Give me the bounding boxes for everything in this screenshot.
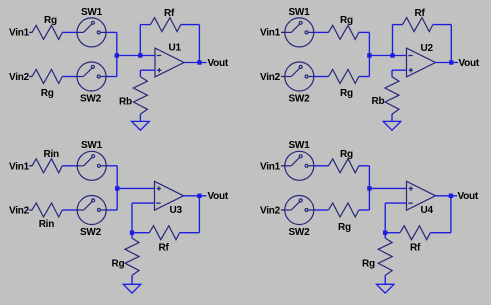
wire Rf down to output (U2) [450,25,452,63]
svg-text:Rf: Rf [415,8,426,19]
wire SW1-Rg (U4) [314,165,329,167]
wire output (U1) [184,62,207,64]
svg-text:Vin2: Vin2 [9,205,30,216]
ground (U4) [376,284,394,293]
junction Rf tap (U1) [138,53,142,57]
junction summing node (U4) [367,186,371,190]
svg-text:Vout: Vout [208,191,229,202]
resistor Rin upper (U3) [32,159,62,173]
wire Rf top right (U1) [181,24,200,26]
switch SW1 (U4) [285,151,314,180]
op-amp U4 [407,181,436,210]
svg-text:SW2: SW2 [289,93,311,104]
svg-text:U1: U1 [169,43,182,54]
resistor Rb (U1) [133,77,147,114]
svg-text:Vin1: Vin1 [9,162,30,173]
wire Vin1 stub (U3) [29,165,32,167]
wire Rg to ground (U4) [384,275,386,284]
svg-text:Rf: Rf [410,242,421,253]
wire node to Rf (U4) [385,232,400,234]
wire SW2-corner (U1) [106,76,117,78]
wire SW2-Rg (U2) [314,76,329,78]
svg-text:U4: U4 [421,205,434,216]
svg-text:Rb: Rb [119,96,132,107]
svg-text:SW1: SW1 [81,7,103,18]
svg-text:Rf: Rf [159,242,170,253]
wire Vin2 stub (U3) [29,209,32,211]
wire corner down to node (U3) [116,166,118,189]
wire Rg-corner (U2) [359,31,370,33]
wire Rb to ground (U1) [139,114,141,121]
junction output node (U3) [197,194,201,198]
wire corner up to node (U3) [116,188,118,210]
switch SW2 (U3) [77,196,106,225]
svg-text:Vin2: Vin2 [260,72,281,83]
wire node to noninverting input (U3) [117,187,154,189]
wire SW1-corner (U1) [106,31,117,33]
svg-text:Vout: Vout [458,191,479,202]
wire Rf top left (U1) [140,24,150,26]
resistor Rg upper (U4) [329,159,359,173]
wire Rf top right (U2) [433,24,452,26]
resistor Rg upper (U1) [32,25,62,39]
svg-text:Rg: Rg [340,149,353,160]
svg-text:Rg: Rg [340,88,353,99]
junction output node (U2) [449,60,453,64]
svg-text:Vout: Vout [459,58,480,69]
svg-text:U2: U2 [421,43,434,54]
wire SW1-corner (U3) [106,165,117,167]
switch SW2 (U1) [77,62,106,91]
svg-text:Vin1: Vin1 [9,28,30,39]
svg-text:Rb: Rb [372,96,385,107]
wire output (U4) [436,195,458,197]
junction summing node (U3) [115,186,119,190]
junction summing node (U1) [115,53,119,57]
wire corner down to node (U1) [116,32,118,55]
svg-text:SW1: SW1 [289,140,311,151]
wire SW2-corner (U3) [106,209,117,211]
wire corner up to node (U2) [368,56,370,77]
wire Rg-SW2 (U1) [62,76,77,78]
svg-text:Vout: Vout [208,58,229,69]
wire inverting down (U4) [384,203,386,233]
wire noninverting left (U1) [140,69,155,71]
wire Rf tap up (U2) [392,25,394,56]
wire Rg-corner (U4) [359,165,370,167]
wire Rin-SW1 (U3) [62,165,77,167]
wire inverting left (U3) [132,202,155,204]
resistor Rf (U4) [400,226,430,240]
svg-text:Vin2: Vin2 [260,205,281,216]
junction summing node (U2) [367,53,371,57]
wire Rf tap up (U1) [139,25,141,56]
wire Vin2 stub (U4) [281,209,285,211]
ground (U1) [132,121,150,130]
wire Rf right (U3) [180,232,200,234]
wire Rf top left (U2) [393,24,403,26]
wire Rg-corner lower (U2) [359,76,370,78]
junction output node (U4) [449,194,453,198]
switch SW1 (U3) [77,151,106,180]
svg-text:SW1: SW1 [81,140,103,151]
wire Vin1 stub (U4) [281,165,285,167]
wire output (U2) [436,62,459,64]
wire output (U3) [184,195,207,197]
wire node to inverting input (U2) [369,55,406,57]
resistor Rg (U3) [125,238,139,275]
wire Rf down to output (U1) [198,25,200,63]
svg-text:Rin: Rin [39,219,55,230]
wire Rf up to output (U4) [450,196,452,233]
resistor Rg lower (U4) [329,203,359,217]
wire corner up to node (U1) [116,56,118,77]
junction Rf tap (U2) [390,53,394,57]
wire noninverting down (U2) [391,70,393,77]
resistor Rf (U3) [149,226,179,240]
junction feedback node (U3) [130,231,134,235]
wire noninverting down (U1) [139,70,141,77]
wire Vin1 stub (U1) [29,31,32,33]
op-amp U1 [155,48,184,77]
wire SW1-Rg (U2) [314,31,329,33]
junction feedback node (U4) [383,231,387,235]
wire Vin1 stub (U2) [281,31,285,33]
switch SW2 (U2) [285,62,314,91]
resistor Rg lower (U1) [32,70,62,84]
ground (U2) [383,121,401,130]
wire node to noninverting input (U4) [369,187,406,189]
wire inverting left (U4) [385,202,406,204]
resistor Rb (U2) [385,77,399,114]
junction output node (U1) [197,60,201,64]
resistor Rg lower (U2) [329,70,359,84]
svg-text:Rg: Rg [338,222,351,233]
svg-text:Rf: Rf [164,8,175,19]
wire node down to Rg (U3) [131,233,133,238]
op-amp U3 [155,181,184,210]
wire Vin2 stub (U1) [29,76,32,78]
wire node to Rf (U3) [132,232,149,234]
svg-text:Rg: Rg [362,259,375,270]
wire Rf up to output (U3) [198,196,200,233]
wire Rg-SW1 (U1) [62,31,77,33]
wire Rg-corner lower (U4) [359,209,370,211]
svg-text:SW2: SW2 [80,93,102,104]
wire Rb to ground (U2) [391,114,393,121]
wire corner down to node (U2) [368,32,370,55]
svg-text:Rg: Rg [44,15,57,26]
wire Rf right (U4) [430,232,451,234]
wire Rg to ground (U3) [131,275,133,284]
svg-text:SW2: SW2 [80,227,102,238]
svg-text:U3: U3 [170,205,183,216]
svg-text:SW1: SW1 [289,7,311,18]
resistor Rin lower (U3) [32,203,62,217]
svg-text:Rg: Rg [41,88,54,99]
wire SW2-Rg (U4) [314,209,329,211]
wire node to inverting input (U1) [117,55,155,57]
resistor Rf (U2) [403,18,433,32]
wire corner up to node (U4) [368,188,370,210]
svg-text:Rin: Rin [44,149,60,160]
resistor Rf (U1) [150,18,180,32]
switch SW1 (U1) [77,18,106,47]
svg-text:Rg: Rg [112,258,125,269]
ground (U3) [123,284,141,293]
wire Rin-SW2 (U3) [62,209,77,211]
resistor Rg upper (U2) [329,25,359,39]
op-amp U2 [407,48,436,77]
svg-text:Vin2: Vin2 [9,72,30,83]
wire node down to Rg (U4) [384,233,386,238]
wire noninverting left (U2) [392,69,407,71]
wire inverting down (U3) [131,203,133,233]
wire corner down to node (U4) [368,166,370,189]
svg-text:Vin1: Vin1 [260,28,281,39]
switch SW1 (U2) [285,18,314,47]
svg-text:SW2: SW2 [289,227,311,238]
switch SW2 (U4) [285,196,314,225]
svg-text:Rg: Rg [340,15,353,26]
wire Vin2 stub (U2) [281,76,285,78]
resistor Rg (U4) [378,238,392,275]
svg-text:Vin1: Vin1 [260,162,281,173]
